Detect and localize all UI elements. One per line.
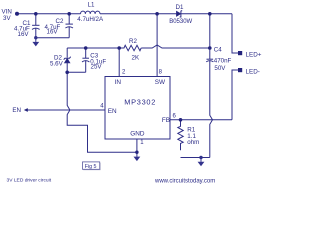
svg-text:SW: SW: [155, 79, 166, 86]
svg-text:R2: R2: [129, 38, 137, 45]
node C3 top: [84, 46, 88, 50]
svg-text:EN: EN: [12, 107, 21, 114]
svg-text:5.6V: 5.6V: [50, 61, 64, 68]
svg-text:MP3302: MP3302: [124, 97, 156, 106]
wire output vertical with C4 and hop over FB wire: [209, 14, 211, 59]
wire LED- drop: [232, 70, 238, 120]
capacitor C2: [68, 14, 70, 24]
svg-text:3V LED driver circuit: 3V LED driver circuit: [7, 178, 52, 184]
wire pin2 drop: [118, 48, 120, 77]
svg-text:EN: EN: [108, 108, 117, 115]
wire D2 node down with jog to GND rail: [67, 72, 137, 152]
svg-text:16V: 16V: [47, 29, 59, 36]
node R2 left: [117, 46, 121, 50]
node VIN terminal: [15, 12, 19, 16]
svg-text:FB: FB: [162, 117, 170, 124]
ground below GND pin: [134, 152, 141, 161]
wire EN to pin 4: [28, 109, 106, 111]
svg-text:GND: GND: [130, 131, 145, 138]
svg-text:B0530W: B0530W: [169, 19, 192, 25]
svg-text:50V: 50V: [214, 65, 226, 72]
wire D2 node to R2 left: [67, 47, 119, 49]
diode D1: [176, 11, 181, 16]
svg-text:2: 2: [122, 70, 126, 76]
capacitor C1: [35, 14, 37, 25]
svg-text:2K: 2K: [132, 54, 140, 61]
svg-text:IN: IN: [115, 79, 122, 86]
node C2 top: [67, 12, 71, 16]
node EN terminal: [24, 108, 28, 112]
node FB/R1: [179, 118, 183, 122]
resistor R1: [178, 120, 183, 150]
wire pin8 SW to top rail: [156, 14, 158, 77]
svg-text:4.7uH/2A: 4.7uH/2A: [77, 16, 104, 23]
svg-text:LED+: LED+: [246, 51, 262, 58]
inductor L1: [81, 11, 101, 14]
figure label Fig 5: [83, 162, 101, 170]
wire FB pin to LED- line: [170, 119, 232, 121]
wire GND pin down: [136, 139, 138, 152]
svg-text:3V: 3V: [3, 15, 11, 22]
node output top: [208, 12, 212, 16]
svg-text:470nF: 470nF: [214, 58, 232, 65]
svg-text:1: 1: [140, 140, 144, 146]
wire LED+ drop: [232, 14, 238, 53]
wire L1 to D1: [100, 13, 176, 15]
svg-text:8: 8: [159, 70, 163, 76]
svg-text:16V: 16V: [18, 31, 30, 38]
node C4 top: [208, 46, 212, 50]
wire D1 cathode to LED+ corner: [181, 13, 232, 15]
wire top rail VIN to L1: [17, 13, 81, 15]
ground right bottom: [198, 156, 205, 167]
node SW: [155, 12, 159, 16]
wire R2 right with hop over SW line: [141, 45, 210, 48]
node D2 bottom: [65, 71, 69, 75]
resistor R2: [119, 45, 141, 50]
zener diode D2: [66, 48, 68, 58]
wire R1 bottom rail: [181, 157, 210, 159]
svg-text:www.circuitstoday.com: www.circuitstoday.com: [154, 178, 215, 184]
svg-text:4: 4: [100, 104, 104, 110]
svg-text:25V: 25V: [91, 64, 103, 71]
IC U1 MP3302: [105, 77, 170, 140]
node LED- pad: [238, 68, 242, 72]
ground below C1: [32, 36, 39, 46]
node C1 top: [34, 12, 38, 16]
capacitor C3: [85, 48, 87, 58]
node LED+ pad: [238, 51, 242, 55]
svg-text:Fig 5: Fig 5: [85, 164, 97, 170]
svg-text:D1: D1: [176, 4, 184, 11]
svg-text:6: 6: [173, 114, 177, 120]
svg-text:LED-: LED-: [246, 68, 260, 75]
wire D2/C3 bottoms: [67, 71, 86, 73]
svg-text:ohm: ohm: [187, 139, 199, 146]
node GND junction: [135, 151, 138, 154]
svg-text:L1: L1: [88, 1, 95, 8]
wire C1 bottom to C2 bottom: [36, 37, 69, 39]
svg-text:C4: C4: [214, 47, 222, 54]
